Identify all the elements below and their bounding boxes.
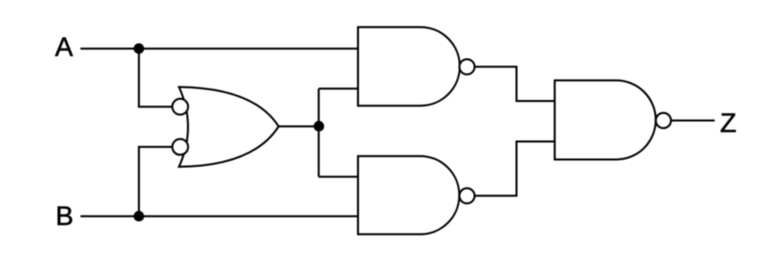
- OR gate U1 top input bubble: [172, 99, 188, 115]
- wire NAND U3 output to NAND U4 bottom input: [475, 142, 555, 196]
- OR gate U1 body (inputs inverted): [179, 87, 279, 167]
- svg-text:A: A: [55, 32, 73, 62]
- wire B lead to NAND U3 bottom input: [80, 215, 358, 217]
- NAND gate U3 body (bottom): [358, 156, 459, 234]
- NAND gate U4 body (output): [555, 80, 656, 159]
- svg-text:B: B: [56, 201, 74, 231]
- junction B: [134, 211, 145, 222]
- wire NAND U2 output to NAND U4 top input: [475, 67, 555, 101]
- wire A lead to NAND U2 top input: [80, 48, 358, 50]
- NAND gate U3 output bubble: [459, 188, 474, 203]
- svg-text:Z: Z: [720, 108, 737, 138]
- wire A branch down to OR U1 top input: [139, 49, 173, 107]
- NAND gate U2 body (top): [358, 27, 460, 106]
- wire NAND U4 output to Z: [671, 120, 715, 122]
- junction A: [134, 43, 145, 54]
- wire B branch up to OR U1 bottom input: [139, 147, 173, 216]
- wire OR U1 output to node: [278, 125, 319, 127]
- junction OR output node: [314, 121, 325, 132]
- NAND gate U2 output bubble: [459, 59, 474, 74]
- wire node vertical: [318, 89, 320, 177]
- OR gate U1 bottom input bubble: [172, 139, 188, 155]
- wire node to NAND U2 bottom input: [319, 88, 358, 90]
- NAND gate U4 output bubble: [656, 113, 671, 128]
- wire node to NAND U3 top input: [319, 176, 358, 178]
